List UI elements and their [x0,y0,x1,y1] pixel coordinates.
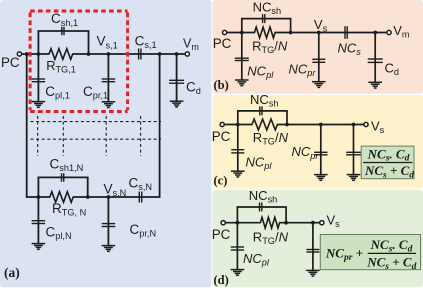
capacitor C_pl,N [37,197,39,244]
svg-text:(a): (a) [4,265,20,280]
dashed continuation lines (repeat indicator) [31,121,162,123]
panel (d) background [213,190,423,287]
svg-text:PC: PC [1,55,20,70]
svg-text:(d): (d) [214,273,229,287]
terminal V_s (c) [364,122,368,126]
wire: right bus vertical (a) [159,54,161,197]
node junction right bus (a) [158,52,162,56]
wire: resistor to V_s (c) [277,124,366,126]
wire: NC_sh riser left (d) [236,207,238,223]
wire: C_sh,1 branch riser left [37,31,39,54]
svg-text:(b): (b) [214,78,229,92]
ground C_pl,N [32,243,46,245]
wire: stage-N left segment [26,196,51,198]
wire: PC to resistor (c) [222,124,252,126]
ground equivalent cap (c) [347,174,361,176]
svg-text:NCs + Cd: NCs + Cd [364,163,414,180]
ground NC_pr (c) [314,174,328,176]
terminal PC (a) [17,52,21,56]
wire: NC_sh top (d) [237,206,287,208]
svg-text:PC: PC [213,36,232,51]
capacitor NC_pl (d) [236,223,238,270]
terminal V_m (b) [387,30,391,34]
node junction right riser (a) [87,52,91,56]
capacitor C_pr,N [107,197,109,246]
wire: resistor to V_s (d) [279,222,322,224]
capacitor NC_pl (c) [237,125,239,172]
node junction left (c) [236,123,240,127]
wire: C_sh1,N branch riser right [87,177,89,197]
capacitor NC_sh (c) [259,106,261,115]
node junction right riser (c) [285,123,289,127]
svg-text:NCsh: NCsh [250,92,279,109]
wire: resistor to V_m (a) [72,53,187,55]
ground NC_pl (d) [231,269,245,271]
capacitor NC_sh (b) [262,14,264,23]
node V_s,1 junction [107,52,111,56]
capacitor C_s,N [138,192,140,203]
svg-text:PC: PC [212,227,231,242]
wire: NC_sh riser right (d) [285,207,287,223]
node junction C_d (b) [373,31,377,35]
capacitor C_d (b) [374,33,376,83]
ground equivalent cap (d) [306,269,320,271]
wire: PC to resistor (a) [19,53,49,55]
ground NC_pr (b) [312,81,326,83]
ground NC_pl (b) [235,79,249,81]
wire: left bus vertical (a) [26,54,28,197]
svg-text:NCs + Cd: NCs + Cd [366,254,416,271]
capacitor NC_pl (b) [241,33,243,81]
node junction C_d (a) [175,52,179,56]
svg-text:PC: PC [212,129,231,144]
terminal V_s (d) [320,221,324,225]
resistor R_TG/N (c) [252,119,277,130]
capacitor C_pl,1 [37,54,39,102]
wire: NC_sh top (b) [241,18,291,20]
terminal PC (d) [221,221,225,225]
wire: resistor to V_m (b) [275,32,389,34]
node V_s junction (b) [317,31,321,35]
capacitor C_d (a) [176,54,178,101]
wire: C_sh,1 branch top [38,30,90,32]
capacitor NC_s [344,26,346,39]
node junction PC bus (a) [25,52,29,56]
svg-text:(c): (c) [214,174,228,188]
node junction left riser (a) [37,52,41,56]
node junction NC_pr (c) [319,123,323,127]
capacitor NC_sh (d) [259,203,261,212]
terminal PC (c) [220,122,224,126]
node junction stage-N left [37,195,41,199]
resistor R_TG,N [50,192,73,203]
terminal PC (b) [223,30,227,34]
capacitor NC_pr (b) [318,33,320,82]
ground NC_pl (c) [231,170,245,172]
capacitor NC_pr (c) [320,125,322,175]
red dashed highlight box [30,10,128,13]
wire: PC to resistor (d) [223,222,261,224]
wire: C_sh,1 branch riser right [88,31,90,54]
resistor R_TG/N (d) [260,217,279,228]
capacitor C_s,1 [138,49,140,60]
wire: NC_sh riser right (c) [286,111,288,125]
capacitor equivalent (c) [353,125,355,175]
wire: PC to resistor (b) [225,32,255,34]
wire: NC_sh riser right (b) [290,19,292,33]
wire: NC_sh top (c) [237,110,288,112]
ground C_d (a) [170,100,184,102]
ground C_pr,1 [102,101,116,103]
capacitor C_sh1,N [61,173,63,182]
node V_s,N junction [107,195,111,199]
capacitor C_pr,1 [107,54,109,102]
node junction eq cap (c) [352,123,356,127]
ground C_d (b) [368,81,382,83]
resistor R_TG/N (b) [255,27,276,38]
wire: C_sh1,N branch top [38,176,89,178]
terminal V_m (a) [185,52,189,56]
capacitor equivalent (d) [312,223,314,271]
panel (c) background [213,95,423,189]
node junction stage-N right riser [86,195,90,199]
panel (b) background [213,0,423,94]
ground C_pl,1 [32,101,46,103]
panel (a) background [0,0,212,287]
resistor R_TG,1 [49,49,73,60]
wire: NC_sh riser left (b) [241,19,243,33]
node junction right riser (b) [289,31,293,35]
wire: NC_sh riser left (c) [237,111,239,125]
formula box (c) [361,146,414,179]
node junction eq cap (d) [311,221,315,225]
capacitor C_sh,1 [61,27,63,35]
wire: stage-N right segment [73,196,161,198]
node junction right riser (d) [284,221,288,225]
node junction left (d) [236,221,240,225]
ground C_pr,N [102,245,116,247]
wire: C_sh1,N branch riser left [37,177,39,197]
formula box (d) [320,235,420,270]
node junction left (b) [240,31,244,35]
